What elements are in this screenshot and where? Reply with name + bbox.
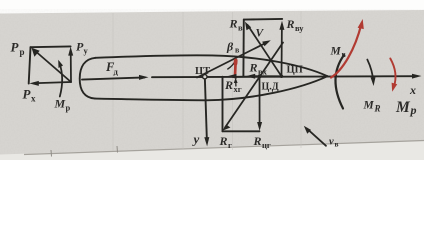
y axis arrowhead (204, 137, 209, 146)
svg-text:R: R (374, 104, 381, 114)
axis segment with thrust arrow Fd (82, 77, 145, 79)
svg-text:М: М (363, 100, 375, 112)
svg-text:р: р (66, 103, 71, 113)
label Py (76, 40, 89, 56)
svg-text:R: R (286, 17, 295, 31)
red moment arrow Mv (331, 24, 362, 78)
y axis line downward (205, 79, 207, 141)
svg-text:V: V (256, 28, 265, 40)
svg-text:х: х (409, 83, 416, 97)
svg-text:р: р (410, 103, 417, 117)
vector Rv (resultant, diagonal up-left) (248, 25, 282, 76)
tick on bottom edge (116, 146, 119, 153)
label Rxg (224, 78, 242, 94)
svg-text:у: у (192, 132, 200, 147)
svg-text:в: в (235, 46, 240, 55)
lower parallelogram bottom edge (223, 130, 260, 132)
svg-text:R: R (229, 17, 238, 31)
svg-text:R: R (219, 134, 228, 148)
vector Rvy (up right edge) (281, 25, 283, 77)
label Fd (105, 60, 119, 77)
svg-text:β: β (226, 40, 234, 54)
svg-text:М: М (54, 97, 66, 111)
label Rvx (249, 61, 268, 77)
rudder arc at tail (335, 55, 344, 109)
flow velocity arrow v_v (307, 129, 326, 146)
label Px (23, 87, 37, 104)
svg-text:г: г (228, 140, 232, 150)
label Rvy (286, 17, 305, 33)
lighter strip below page edge (0, 141, 424, 161)
svg-text:ву: ву (295, 23, 304, 33)
svg-text:R: R (253, 134, 262, 148)
Fd arrowhead (139, 75, 149, 80)
svg-text:р: р (20, 47, 25, 57)
label Mp red (395, 99, 417, 117)
red pen mark near beta (234, 60, 237, 76)
axis segment to x arrow (152, 76, 417, 77)
svg-text:R: R (224, 78, 233, 92)
svg-text:ЦП: ЦП (287, 65, 303, 76)
faint fold line 2 (182, 12, 184, 150)
svg-text:ЦТ: ЦТ (195, 66, 210, 77)
svg-text:в: в (342, 50, 347, 59)
svg-text:в: в (335, 140, 339, 149)
x axis arrowhead (412, 74, 422, 79)
moment Mp arc (left, curved arrow) (59, 63, 62, 97)
torpedo hull bottom edge (95, 76, 328, 100)
tick on bottom edge (50, 150, 53, 157)
faint fold line 1 (112, 13, 114, 151)
vector Rg (resultant, diagonal down-left, extended above axis) (225, 43, 283, 128)
propeller force parallelogram left edge (29, 47, 31, 83)
torpedo hull top edge (96, 55, 328, 76)
label Rcg (253, 134, 271, 150)
velocity vector V (197, 42, 267, 77)
svg-text:вх: вх (258, 67, 268, 77)
label Pp (11, 40, 25, 58)
svg-text:R: R (249, 61, 258, 75)
label beta_v (226, 40, 240, 55)
svg-text:в: в (238, 23, 243, 33)
vector Rcg (down right edge) (259, 77, 261, 128)
faint fold line 3 (232, 12, 234, 150)
vector Py (up right edge) (70, 51, 72, 83)
label Rv (229, 17, 244, 33)
point CP on axis (280, 75, 283, 78)
label v_v (329, 137, 339, 149)
svg-text:Р: Р (11, 40, 20, 55)
moment arrow MR (367, 60, 373, 83)
svg-text:хг: хг (234, 84, 242, 94)
point CD (pressure centre) (258, 75, 262, 79)
drift angle arc beta_v (228, 59, 236, 69)
svg-text:М: М (330, 46, 342, 58)
label Rg (219, 134, 233, 150)
vector Rvx (left along axis) (251, 75, 282, 77)
label Mv (330, 46, 347, 60)
faint fold line 4 (300, 11, 302, 148)
svg-text:v: v (329, 137, 334, 148)
vector Rxg (left along axis) (233, 76, 260, 78)
lower parallelogram left edge (222, 77, 224, 132)
page bottom edge line (24, 141, 424, 155)
vector Px (left along bottom) (34, 82, 72, 83)
leader arrow of R_xg label (235, 81, 237, 87)
svg-text:цг: цг (262, 140, 271, 150)
upper parallelogram left edge (242, 20, 244, 77)
vector Pp (resultant, diagonal) (34, 50, 72, 83)
center of gravity circle CT (203, 75, 207, 79)
propeller force parallelogram top edge (31, 45, 71, 48)
svg-text:Ц.Д: Ц.Д (262, 82, 279, 93)
svg-text:М: М (395, 99, 411, 116)
label MR (363, 100, 381, 114)
svg-text:х: х (31, 94, 36, 104)
label Mp left (54, 97, 71, 113)
red moment arrow Mp (right) (390, 59, 395, 88)
torpedo hull left cap (80, 58, 96, 99)
svg-text:д: д (114, 67, 119, 77)
upper parallelogram top edge (244, 18, 282, 21)
paper background (0, 10, 424, 160)
